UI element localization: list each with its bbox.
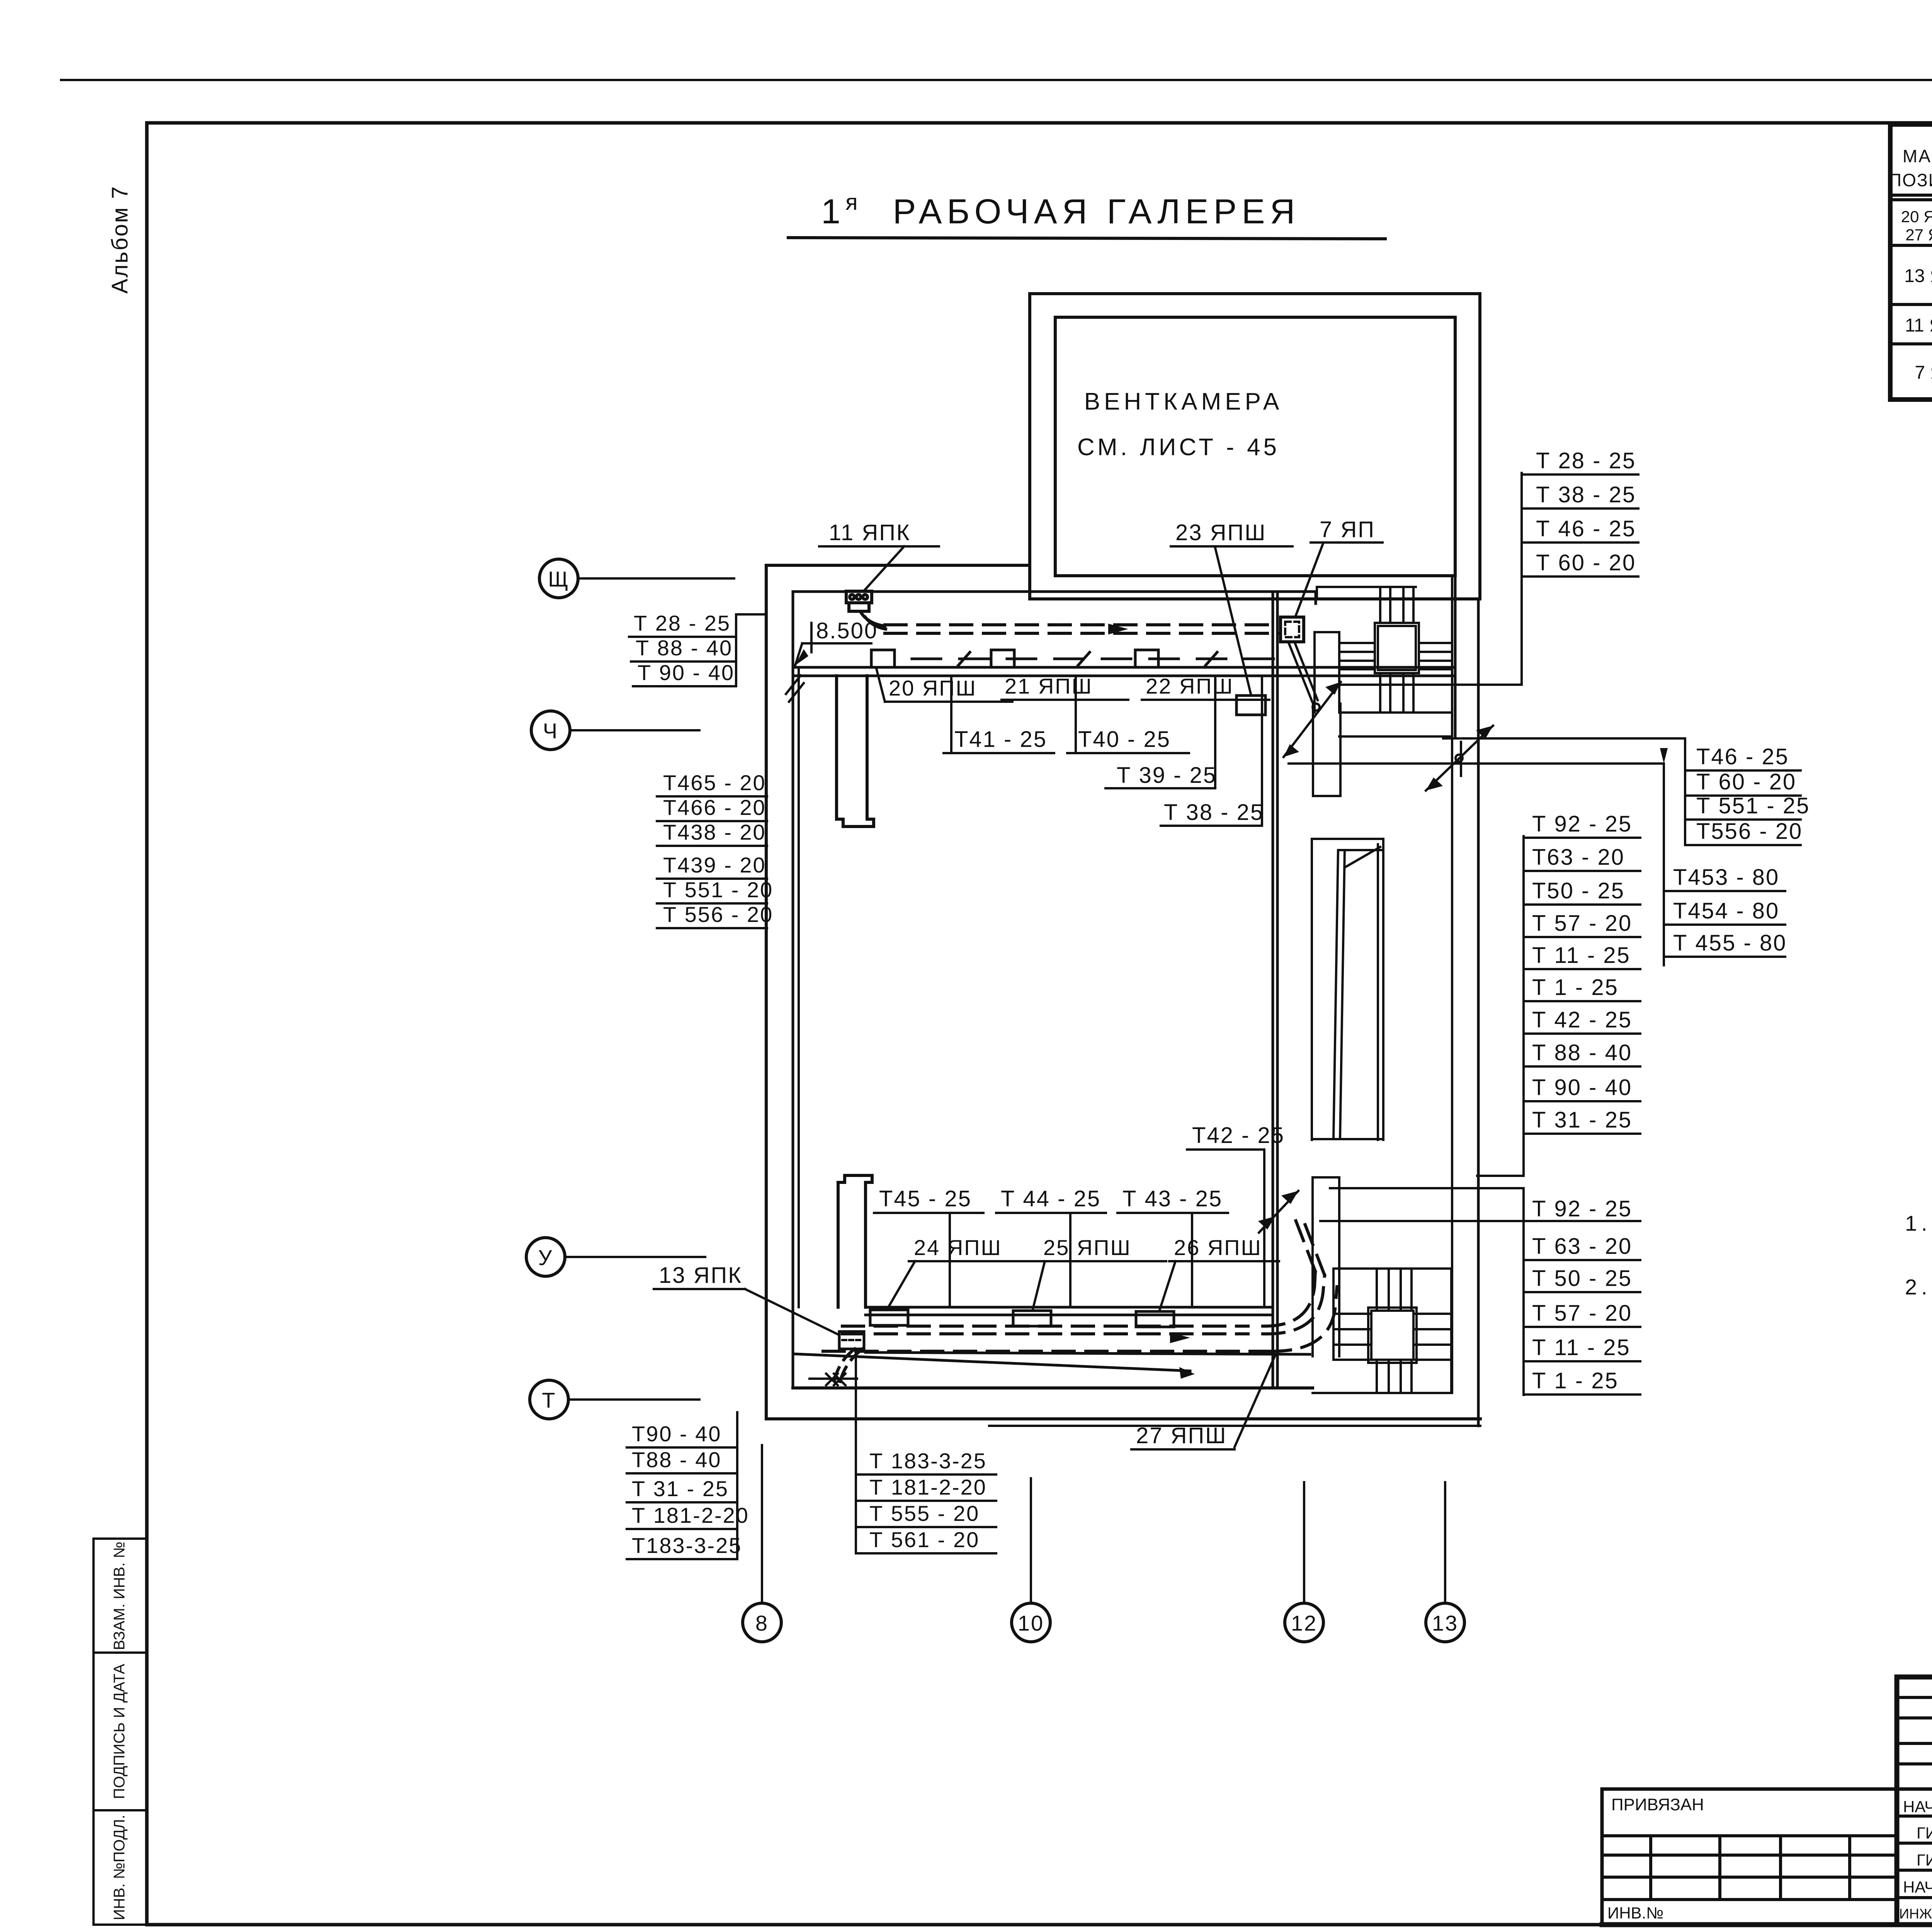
column C (lower T92) bbox=[1522, 1188, 1525, 1395]
leader L2a and column T46 right bbox=[1443, 737, 1685, 740]
svg-text:Т63 - 20: Т63 - 20 bbox=[1532, 845, 1625, 870]
svg-text:Т439 - 20: Т439 - 20 bbox=[663, 853, 766, 877]
sheet outer top line bbox=[61, 79, 1932, 81]
upper pilaster niche bbox=[837, 676, 874, 827]
svg-text:ВЗАМ. ИНВ. №: ВЗАМ. ИНВ. № bbox=[111, 1541, 128, 1650]
treads right of landing bbox=[1419, 642, 1452, 644]
svg-text:У: У bbox=[538, 1245, 553, 1270]
svg-text:Т 46 - 25: Т 46 - 25 bbox=[1536, 516, 1636, 541]
upper dashed conduits bbox=[885, 625, 1281, 633]
junction 1 with arrows bbox=[1313, 704, 1320, 711]
svg-text:Т465 - 20: Т465 - 20 bbox=[663, 770, 766, 795]
svg-text:7 ЯП: 7 ЯП bbox=[1915, 362, 1932, 383]
upper small grid of stamp bbox=[1897, 1696, 1932, 1699]
double drop from 7ЯП box to junction bbox=[1288, 642, 1312, 702]
svg-text:Т88 - 40: Т88 - 40 bbox=[632, 1447, 722, 1472]
vent room outer walls bbox=[1030, 294, 1480, 599]
svg-text:8.500: 8.500 bbox=[816, 618, 878, 643]
box 13 ЯПК with label bbox=[839, 1332, 864, 1349]
ramp top line bbox=[866, 1352, 1310, 1354]
svg-text:1. ТРУБНО-КАБЕЛЬНЫЙ ЖУРНАЛ: 1. ТРУБНО-КАБЕЛЬНЫЙ ЖУРНАЛ СМ. ЛИСТЫ - 2… bbox=[1905, 1211, 1932, 1235]
treads left bbox=[1333, 1313, 1371, 1315]
svg-text:Т46 - 25: Т46 - 25 bbox=[1696, 744, 1789, 769]
leader to bottom column bbox=[855, 1349, 857, 1553]
svg-text:Т 60 - 20: Т 60 - 20 bbox=[1536, 550, 1636, 575]
leader L1 and column T28 bbox=[1339, 684, 1522, 686]
corridor wall bbox=[1451, 576, 1453, 1393]
svg-text:Т556 - 20: Т556 - 20 bbox=[1696, 819, 1803, 844]
svg-text:Т 57 - 20: Т 57 - 20 bbox=[1532, 1301, 1632, 1326]
svg-text:13 ЯПК: 13 ЯПК bbox=[1904, 266, 1932, 286]
svg-text:Т90 - 40: Т90 - 40 bbox=[632, 1422, 722, 1446]
box 11 ЯПК bbox=[846, 591, 872, 611]
box 25 ЯПШ bbox=[1013, 1311, 1051, 1326]
svg-text:13 ЯПК: 13 ЯПК bbox=[659, 1263, 742, 1288]
landing bbox=[1371, 1311, 1413, 1360]
upper parapet wall with boxes bbox=[793, 650, 1455, 715]
svg-text:Т 1 - 25: Т 1 - 25 bbox=[1532, 975, 1619, 1000]
lower parapet wall bbox=[866, 1306, 1273, 1309]
svg-text:Т453 - 80: Т453 - 80 bbox=[1673, 865, 1779, 890]
svg-text:НАЧ. ГР.: НАЧ. ГР. bbox=[1903, 1878, 1932, 1896]
box 24 ЯПШ bbox=[870, 1310, 908, 1325]
svg-text:23 ЯПШ: 23 ЯПШ bbox=[1175, 520, 1266, 545]
box 7 ЯП bbox=[1281, 617, 1304, 642]
svg-text:Т 44 - 25: Т 44 - 25 bbox=[1001, 1186, 1101, 1211]
svg-text:Т 181-2-20: Т 181-2-20 bbox=[632, 1503, 749, 1527]
lower stairwell bbox=[1313, 1177, 1451, 1393]
svg-text:Т 11 - 25: Т 11 - 25 bbox=[1532, 1335, 1631, 1360]
svg-text:Т 555 - 20: Т 555 - 20 bbox=[869, 1501, 980, 1526]
box 21 ЯПШ bbox=[991, 650, 1014, 667]
svg-text:10: 10 bbox=[1018, 1611, 1044, 1635]
svg-text:ВЕНТКАМЕРА: ВЕНТКАМЕРА bbox=[1084, 388, 1283, 415]
svg-text:Т454 - 80: Т454 - 80 bbox=[1673, 898, 1779, 923]
svg-text:ГИП: ГИП bbox=[1917, 1824, 1932, 1842]
svg-text:27 ЯПШ: 27 ЯПШ bbox=[1136, 1423, 1227, 1448]
equipment table top right bbox=[1890, 124, 1932, 400]
ramp sloped line bbox=[795, 1354, 1190, 1371]
svg-text:Т 38 - 25: Т 38 - 25 bbox=[1536, 482, 1636, 507]
svg-text:Т183-3-25: Т183-3-25 bbox=[632, 1533, 742, 1558]
treads below landing bbox=[1376, 1360, 1378, 1393]
landing bbox=[1375, 623, 1419, 673]
svg-text:Т 60 - 20: Т 60 - 20 bbox=[1696, 769, 1796, 794]
west wall element bbox=[1313, 1177, 1339, 1356]
svg-text:1я РАБОЧАЯ ГАЛЕРЕЯ: 1я РАБОЧАЯ ГАЛЕРЕЯ bbox=[821, 190, 1300, 231]
wing right wall bbox=[1477, 599, 1480, 1426]
svg-text:Т 92 - 25: Т 92 - 25 bbox=[1532, 1196, 1632, 1221]
box 22 ЯПШ bbox=[1135, 650, 1158, 667]
conduit curve from 11ЯПК box bbox=[861, 612, 885, 626]
svg-text:Т 42 - 25: Т 42 - 25 bbox=[1532, 1007, 1632, 1032]
axis Щ bbox=[539, 559, 578, 598]
door opening with leaf bbox=[1312, 839, 1383, 1140]
treads above landing bbox=[1379, 587, 1381, 623]
treads left of landing bbox=[1339, 642, 1375, 644]
vent room inner walls bbox=[1055, 317, 1455, 576]
svg-text:Т 455 - 80: Т 455 - 80 bbox=[1673, 930, 1787, 956]
svg-text:25 ЯПШ: 25 ЯПШ bbox=[1043, 1235, 1131, 1260]
box 23 ЯПШ on wall bbox=[1236, 696, 1265, 715]
svg-text:21 ЯПШ: 21 ЯПШ bbox=[1005, 674, 1093, 698]
bottom axis circles bbox=[743, 1603, 781, 1642]
svg-text:ИНЖЕНЕР: ИНЖЕНЕР bbox=[1899, 1906, 1932, 1922]
wing inner wall (vent inner right continued) bbox=[1454, 576, 1457, 736]
signature rows bbox=[1897, 1815, 1932, 1818]
svg-text:27 ЯПШ: 27 ЯПШ bbox=[1905, 226, 1932, 244]
svg-text:Т50 - 25: Т50 - 25 bbox=[1532, 878, 1625, 903]
hall right wall double bbox=[1272, 592, 1274, 1388]
left attached part bbox=[1602, 1787, 1897, 1791]
svg-text:Т 50 - 25: Т 50 - 25 bbox=[1532, 1266, 1632, 1291]
lower boundary lines bbox=[768, 1417, 1480, 1420]
svg-text:Альбом 7: Альбом 7 bbox=[107, 185, 133, 294]
svg-text:13: 13 bbox=[1432, 1611, 1458, 1635]
column T453 bbox=[1663, 764, 1665, 965]
svg-text:СМ. ЛИСТ - 45: СМ. ЛИСТ - 45 bbox=[1077, 434, 1280, 461]
hall bottom outer wall bbox=[793, 1386, 1313, 1389]
svg-text:ПОЗИЦИЯ: ПОЗИЦИЯ bbox=[1889, 170, 1932, 190]
treads right bbox=[1413, 1313, 1451, 1315]
svg-text:ПРИВЯЗАН: ПРИВЯЗАН bbox=[1611, 1795, 1704, 1814]
svg-text:ИНВ. №ПОДЛ.: ИНВ. №ПОДЛ. bbox=[111, 1815, 128, 1920]
svg-text:Т40 - 25: Т40 - 25 bbox=[1078, 727, 1171, 752]
svg-text:ИНВ.№: ИНВ.№ bbox=[1607, 1904, 1663, 1922]
svg-text:Т 43 - 25: Т 43 - 25 bbox=[1122, 1186, 1223, 1211]
wing top wall left segment bbox=[766, 564, 1030, 567]
svg-text:12: 12 bbox=[1291, 1611, 1317, 1635]
treads above landing bbox=[1376, 1269, 1378, 1311]
svg-text:Т438 - 20: Т438 - 20 bbox=[663, 820, 766, 844]
svg-text:Т: Т bbox=[542, 1388, 556, 1412]
svg-text:8: 8 bbox=[755, 1611, 769, 1635]
svg-text:26 ЯПШ: 26 ЯПШ bbox=[1174, 1235, 1262, 1260]
sidebar boxes bbox=[94, 1539, 147, 1653]
svg-text:ПОДПИСЬ И ДАТА: ПОДПИСЬ И ДАТА bbox=[111, 1664, 128, 1799]
lower pilaster niche bbox=[838, 1175, 872, 1307]
svg-text:Т 1 - 25: Т 1 - 25 bbox=[1532, 1368, 1619, 1393]
svg-text:Т 38 - 25: Т 38 - 25 bbox=[1164, 800, 1264, 825]
svg-text:20 ЯПШ÷: 20 ЯПШ÷ bbox=[1901, 207, 1932, 226]
box 26 ЯПШ bbox=[1136, 1311, 1174, 1327]
svg-text:ГИП: ГИП bbox=[1917, 1851, 1932, 1869]
box 20 ЯПШ bbox=[871, 650, 895, 667]
svg-text:Т 90 - 40: Т 90 - 40 bbox=[1532, 1075, 1632, 1100]
svg-text:Т 31 - 25: Т 31 - 25 bbox=[1532, 1107, 1632, 1133]
svg-text:Т 551 - 25: Т 551 - 25 bbox=[1696, 793, 1810, 818]
svg-text:Т 90 - 40: Т 90 - 40 bbox=[638, 660, 735, 685]
svg-text:20 ЯПШ: 20 ЯПШ bbox=[889, 676, 977, 700]
svg-text:Т 11 - 25: Т 11 - 25 bbox=[1532, 943, 1631, 968]
upper stairwell bbox=[1315, 576, 1452, 1393]
svg-text:Т 556 - 20: Т 556 - 20 bbox=[663, 902, 773, 927]
slashed run line on parapet bbox=[912, 658, 1275, 660]
svg-text:Ч: Ч bbox=[543, 719, 558, 743]
treads below landing bbox=[1379, 673, 1381, 713]
svg-text:Т 88 - 40: Т 88 - 40 bbox=[1532, 1040, 1632, 1065]
svg-text:2. ОБЩИЕ УКАЗАНИЯ СМ. ЛИ: 2. ОБЩИЕ УКАЗАНИЯ СМ. ЛИСТ 1 bbox=[1905, 1275, 1932, 1299]
junction 2 with arrows bbox=[1289, 762, 1664, 765]
hall top inner line bbox=[793, 590, 1316, 593]
lower dashed conduits with right bend bbox=[823, 1217, 1337, 1351]
svg-text:Т 183-3-25: Т 183-3-25 bbox=[869, 1449, 987, 1473]
bottom conduit arrow bbox=[1170, 1332, 1190, 1343]
axis Т bbox=[530, 1380, 568, 1419]
svg-text:Т 92 - 25: Т 92 - 25 bbox=[1532, 811, 1632, 837]
title block stamp bbox=[1602, 1677, 1932, 1925]
svg-text:Т 57 - 20: Т 57 - 20 bbox=[1532, 911, 1632, 936]
wall stub above door bbox=[1313, 704, 1340, 796]
svg-text:Т 88 - 40: Т 88 - 40 bbox=[636, 636, 733, 660]
svg-text:Щ: Щ bbox=[548, 567, 570, 591]
svg-text:Т42 - 25: Т42 - 25 bbox=[1192, 1123, 1285, 1148]
hall left wall outer bbox=[765, 565, 768, 1419]
axis Ч bbox=[531, 711, 570, 750]
svg-text:Т 561 - 20: Т 561 - 20 bbox=[869, 1527, 980, 1552]
svg-text:7 ЯП: 7 ЯП bbox=[1320, 517, 1375, 542]
svg-text:Т45 - 25: Т45 - 25 bbox=[879, 1186, 972, 1211]
svg-text:Т 551 - 20: Т 551 - 20 bbox=[663, 878, 773, 902]
svg-text:24 ЯПШ: 24 ЯПШ bbox=[914, 1235, 1002, 1260]
svg-text:Т 63 - 20: Т 63 - 20 bbox=[1532, 1234, 1632, 1259]
svg-text:11 ЯПК: 11 ЯПК bbox=[829, 520, 911, 545]
svg-text:НАЧ.ОТД: НАЧ.ОТД bbox=[1903, 1798, 1932, 1816]
svg-text:Т 31 - 25: Т 31 - 25 bbox=[632, 1476, 729, 1501]
svg-text:Т 28 - 25: Т 28 - 25 bbox=[1536, 448, 1636, 473]
column A (upper T92) bbox=[1522, 836, 1525, 1176]
notes text bbox=[1905, 1211, 1932, 1299]
svg-text:11 ЯПК: 11 ЯПК bbox=[1905, 315, 1932, 336]
hall left wall inner bbox=[792, 592, 794, 1388]
svg-text:Т 181-2-20: Т 181-2-20 bbox=[869, 1475, 987, 1499]
axis У bbox=[526, 1238, 565, 1276]
svg-text:22 ЯПШ: 22 ЯПШ bbox=[1146, 674, 1234, 698]
svg-text:Т 39 - 25: Т 39 - 25 bbox=[1117, 763, 1217, 788]
svg-text:Т41 - 25: Т41 - 25 bbox=[954, 727, 1047, 752]
junction arrows bottom right bbox=[1259, 1191, 1298, 1233]
svg-text:Т466 - 20: Т466 - 20 bbox=[663, 795, 766, 820]
svg-text:Т 28 - 25: Т 28 - 25 bbox=[634, 611, 731, 635]
dashed drop from 13ЯПК box bbox=[835, 1349, 862, 1382]
svg-text:МАРКА: МАРКА bbox=[1903, 146, 1932, 166]
conduit arrow bbox=[1108, 624, 1128, 634]
